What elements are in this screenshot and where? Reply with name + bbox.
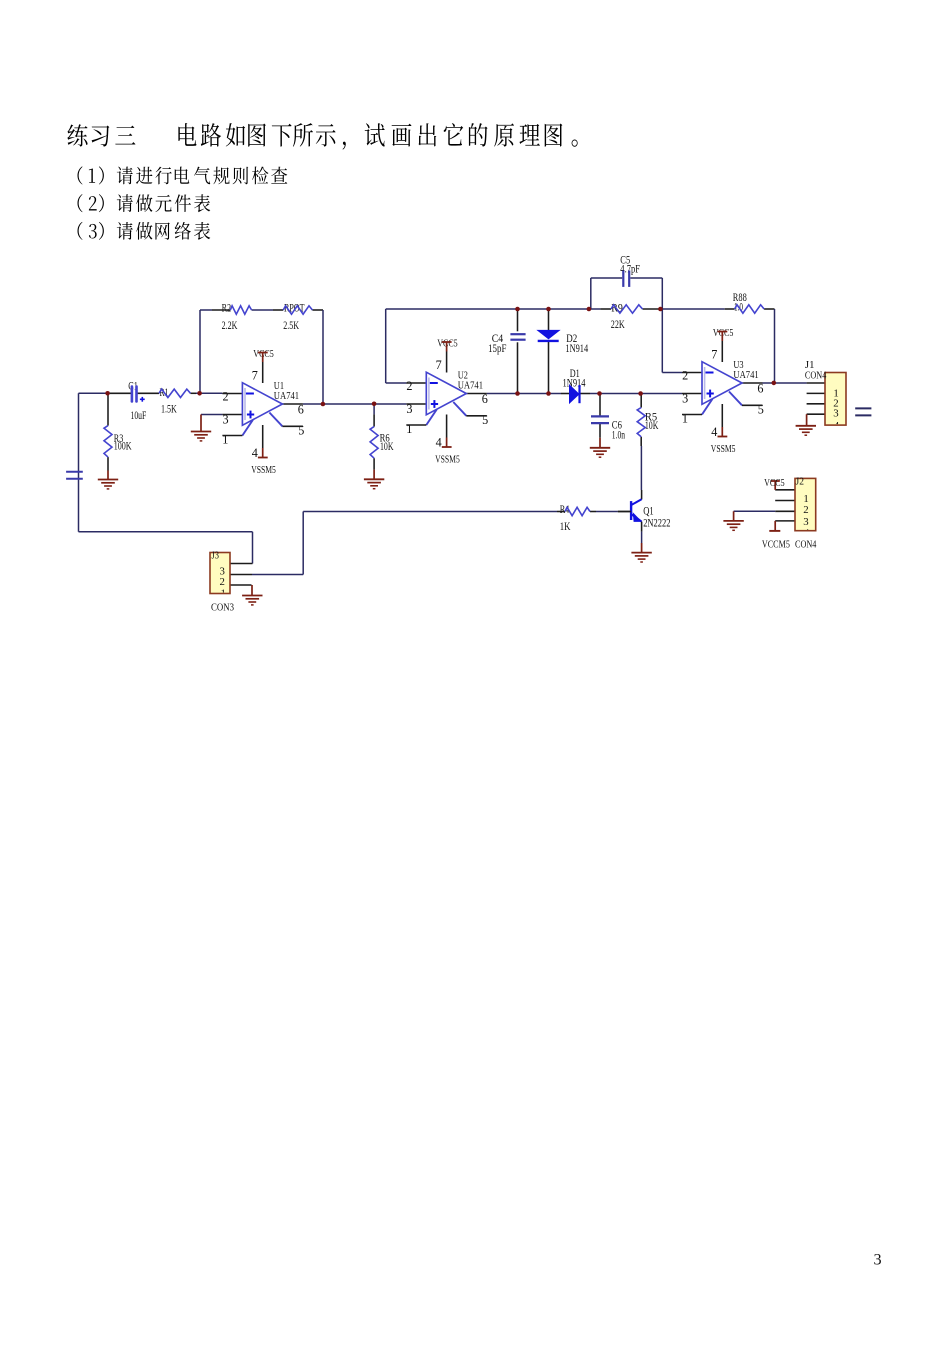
svg-text:UA741: UA741 bbox=[733, 369, 758, 381]
svg-text:10K: 10K bbox=[645, 420, 659, 432]
svg-text:7: 7 bbox=[711, 348, 717, 362]
svg-text:2: 2 bbox=[682, 368, 688, 382]
svg-text:2: 2 bbox=[223, 389, 229, 403]
svg-text:15pF: 15pF bbox=[488, 343, 506, 355]
svg-text:4: 4 bbox=[436, 436, 442, 450]
svg-text:22K: 22K bbox=[611, 319, 626, 331]
svg-text:CON4: CON4 bbox=[795, 539, 817, 551]
svg-text:UA741: UA741 bbox=[458, 380, 483, 392]
svg-text:VSSM5: VSSM5 bbox=[711, 443, 736, 455]
svg-text:2.5K: 2.5K bbox=[283, 320, 299, 332]
svg-text:VCC5: VCC5 bbox=[713, 327, 734, 339]
svg-text:2N2222: 2N2222 bbox=[643, 517, 671, 529]
svg-text:100K: 100K bbox=[114, 441, 132, 453]
svg-text:UA741: UA741 bbox=[274, 390, 299, 402]
svg-text:1.5K: 1.5K bbox=[161, 404, 177, 416]
svg-text:1.0n: 1.0n bbox=[612, 430, 625, 442]
svg-text:7: 7 bbox=[252, 369, 258, 383]
svg-text:R2: R2 bbox=[222, 303, 232, 315]
svg-text:4: 4 bbox=[834, 420, 840, 432]
svg-text:CON4: CON4 bbox=[805, 369, 827, 381]
svg-text:J3: J3 bbox=[212, 550, 220, 562]
svg-text:1K: 1K bbox=[560, 521, 571, 533]
svg-text:VCC5: VCC5 bbox=[764, 477, 785, 489]
svg-text:4: 4 bbox=[252, 446, 258, 460]
svg-text:4: 4 bbox=[711, 425, 717, 439]
svg-text:J2: J2 bbox=[796, 475, 805, 487]
svg-text:10K: 10K bbox=[380, 441, 394, 453]
svg-text:2.2K: 2.2K bbox=[222, 320, 238, 332]
svg-text:2: 2 bbox=[406, 379, 412, 393]
svg-text:CON3: CON3 bbox=[211, 602, 234, 614]
svg-text:Q1: Q1 bbox=[643, 506, 654, 518]
svg-text:1N914: 1N914 bbox=[563, 378, 586, 390]
svg-text:1N914: 1N914 bbox=[565, 343, 588, 355]
svg-text:VCCM5: VCCM5 bbox=[762, 539, 790, 551]
svg-text:2: 2 bbox=[220, 576, 225, 588]
svg-text:3: 3 bbox=[874, 1251, 882, 1269]
svg-text:2: 2 bbox=[803, 504, 808, 516]
svg-text:VSSM5: VSSM5 bbox=[435, 453, 460, 465]
svg-text:3: 3 bbox=[803, 516, 808, 528]
svg-text:3: 3 bbox=[833, 408, 838, 420]
svg-text:10uF: 10uF bbox=[131, 410, 147, 422]
svg-text:4: 4 bbox=[804, 527, 810, 539]
svg-text:VSSM5: VSSM5 bbox=[251, 464, 276, 476]
svg-text:7: 7 bbox=[436, 358, 442, 372]
